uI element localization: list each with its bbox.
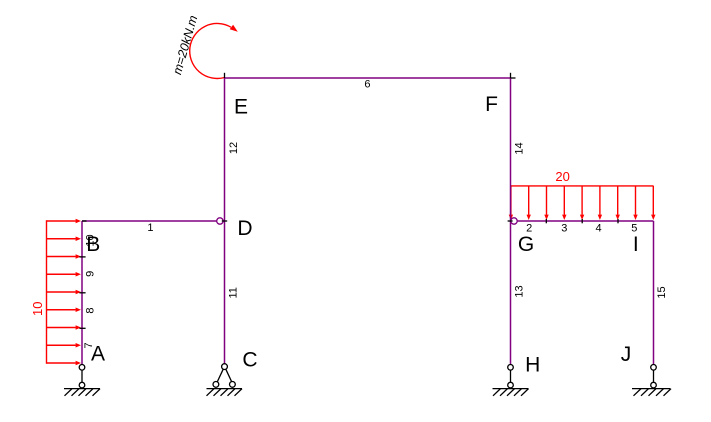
distributed load 20 on beam G-I <box>509 186 656 220</box>
hinge circle at D <box>217 218 223 224</box>
node tick column A-B at y=293 <box>79 292 85 294</box>
node tick beam G-I at x=618 <box>617 219 619 223</box>
wire member 11 column D-C <box>224 221 226 365</box>
svg-text:11: 11 <box>227 287 239 298</box>
svg-text:6: 6 <box>364 79 370 91</box>
node tick beam G-I at x=546 <box>545 219 547 223</box>
hinge circle at G <box>511 218 517 224</box>
svg-text:10: 10 <box>30 302 45 316</box>
wire member 6 beam E-F <box>225 77 511 79</box>
svg-text:G: G <box>518 233 534 256</box>
svg-text:E: E <box>234 96 248 119</box>
support at J (vertical link) <box>632 365 671 396</box>
wire member 14 column F-G <box>510 78 512 221</box>
svg-text:1: 1 <box>147 222 153 234</box>
svg-text:13: 13 <box>513 285 525 297</box>
wire member 15 column I-J <box>653 221 655 365</box>
node tick column A-B at y=328 <box>79 327 85 329</box>
wire members 2,3,4,5 beam G-I <box>511 220 654 222</box>
svg-text:3: 3 <box>561 222 567 234</box>
svg-text:14: 14 <box>514 142 526 154</box>
support at A (vertical link) <box>64 365 100 396</box>
distributed load 10 on column A-B <box>47 219 82 365</box>
node tick column A-B at y=257 <box>79 256 85 258</box>
node tick at G <box>508 220 513 222</box>
node tick at D <box>222 220 227 222</box>
svg-text:D: D <box>237 217 252 240</box>
moment arc m=20kN.m at E <box>190 23 238 78</box>
svg-text:I: I <box>633 233 639 256</box>
svg-text:8: 8 <box>85 307 97 313</box>
support at H (vertical link) <box>493 365 529 396</box>
svg-text:10: 10 <box>85 234 97 246</box>
svg-text:7: 7 <box>83 342 95 348</box>
node tick at F <box>511 73 516 78</box>
wire member 13 column G-H <box>510 221 512 365</box>
svg-text:C: C <box>242 349 257 372</box>
node tick at E <box>224 73 226 78</box>
svg-text:12: 12 <box>228 142 240 154</box>
svg-text:20: 20 <box>555 169 569 184</box>
support at C (pinned, two links) <box>207 364 243 396</box>
svg-text:J: J <box>621 343 632 366</box>
svg-text:15: 15 <box>656 286 668 298</box>
wire members 10,9,8,7 column B-A <box>81 221 83 365</box>
svg-text:2: 2 <box>526 222 532 234</box>
svg-text:5: 5 <box>631 222 637 234</box>
node tick beam G-I at x=582 <box>581 219 583 223</box>
svg-text:H: H <box>525 354 540 377</box>
svg-text:9: 9 <box>84 271 96 277</box>
wire member 12 column E-D <box>224 78 226 221</box>
svg-text:F: F <box>485 93 498 116</box>
svg-text:4: 4 <box>595 222 601 234</box>
node tick at B <box>82 220 87 222</box>
wire member 1 beam B-D <box>82 220 217 222</box>
